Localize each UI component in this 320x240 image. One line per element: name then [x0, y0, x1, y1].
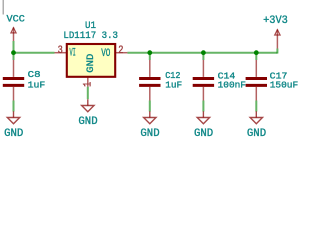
svg-text:GND: GND: [140, 128, 159, 140]
power flag VCC arrow: [11, 28, 16, 42]
wire C12 to ground: [149, 101, 151, 112]
svg-text:+3V3: +3V3: [263, 15, 288, 27]
wire bus to C8: [13, 53, 15, 60]
svg-text:100nF: 100nF: [218, 80, 247, 91]
wire main bus U1 pin 2 to +3V3: [127, 52, 277, 54]
ground symbol at C8: [7, 111, 19, 123]
svg-text:GND: GND: [194, 128, 213, 140]
capacitor C14: [193, 60, 214, 101]
wire C8 to ground: [13, 101, 15, 112]
svg-text:VO: VO: [101, 48, 110, 60]
svg-text:GND: GND: [78, 116, 97, 128]
svg-text:VCC: VCC: [7, 14, 25, 25]
node junction at VCC / C8: [11, 50, 16, 55]
svg-text:1uF: 1uF: [28, 80, 46, 91]
svg-text:150uF: 150uF: [270, 80, 299, 91]
svg-text:GND: GND: [85, 54, 96, 73]
capacitor C17: [246, 60, 267, 101]
wire bus to C12: [149, 53, 151, 60]
svg-text:3: 3: [58, 45, 63, 57]
capacitor C8: [3, 60, 24, 101]
svg-text:1: 1: [82, 82, 94, 87]
wire +3V3 stem: [276, 49, 278, 54]
node junction at C17: [254, 50, 259, 55]
node junction at C14: [201, 50, 206, 55]
wire main bus VCC to U1 pin 3: [14, 52, 55, 54]
svg-text:VI: VI: [70, 48, 76, 60]
pin 2 of U1 (VO): [115, 52, 127, 54]
wire VCC stem: [13, 41, 15, 53]
svg-text:1uF: 1uF: [165, 80, 182, 91]
svg-text:GND: GND: [4, 128, 23, 140]
wire C17 to ground: [255, 101, 257, 112]
wire bus to C17: [255, 53, 257, 60]
regulator U1 body: [67, 44, 115, 77]
ground symbol at C12: [144, 111, 156, 123]
ground symbol at C14: [197, 111, 209, 123]
ground symbol at U1: [82, 99, 94, 111]
wire C14 to ground: [202, 101, 204, 112]
svg-text:GND: GND: [247, 128, 266, 140]
svg-text:2: 2: [118, 45, 123, 57]
pin 1 of U1 (GND): [87, 78, 89, 87]
wire bus to C14: [202, 53, 204, 60]
node junction at C12: [147, 50, 152, 55]
wire U1 pin 1 to ground: [87, 87, 89, 100]
svg-text:LD1117 3.3: LD1117 3.3: [63, 31, 118, 42]
pin 3 of U1 (VI): [55, 52, 67, 54]
sheet border: [2, 0, 4, 15]
power flag +3V3 arrow: [275, 30, 280, 49]
capacitor C12: [139, 60, 160, 101]
svg-text:C8: C8: [28, 69, 41, 80]
ground symbol at C17: [250, 111, 262, 123]
